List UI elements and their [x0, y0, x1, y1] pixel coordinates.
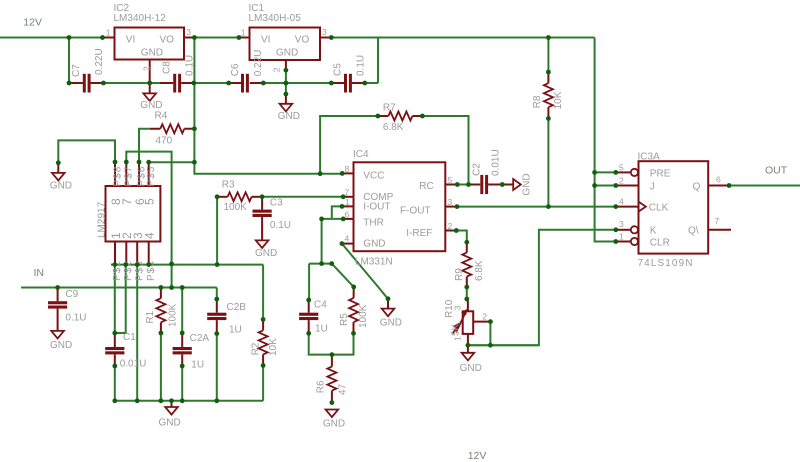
- svg-text:2: 2: [272, 67, 282, 72]
- ground below IC4 pin 4: [380, 299, 402, 329]
- wire 5V rail: [331, 37, 594, 39]
- svg-text:12V: 12V: [23, 16, 42, 28]
- svg-text:C8: C8: [162, 61, 173, 74]
- svg-text:R3: R3: [222, 179, 235, 190]
- svg-text:GND: GND: [159, 417, 181, 428]
- wire R8 bottom to F-OUT net: [547, 118, 549, 206]
- svg-text:P$8: P$8: [112, 166, 123, 187]
- svg-text:LM340H-05: LM340H-05: [249, 13, 302, 24]
- svg-text:GND: GND: [460, 363, 482, 374]
- svg-text:1: 1: [241, 27, 246, 37]
- resistor R6 47: [315, 355, 348, 403]
- svg-text:R8: R8: [532, 95, 543, 108]
- svg-text:3: 3: [322, 27, 327, 37]
- op-amp IC1 LM340H-05 regulator: [239, 3, 331, 72]
- resistor R3 100K: [217, 179, 262, 212]
- svg-text:GND: GND: [50, 340, 72, 351]
- svg-text:R4: R4: [155, 111, 168, 122]
- wire net-A to IN link: [171, 264, 173, 288]
- capacitor C5: [331, 55, 366, 93]
- wire C2B top drop: [216, 288, 218, 300]
- capacitor C3: [253, 197, 292, 241]
- wire K net: [468, 230, 616, 345]
- svg-text:F-OUT: F-OUT: [400, 205, 431, 216]
- svg-text:C1: C1: [123, 332, 136, 343]
- svg-text:1U: 1U: [191, 360, 204, 371]
- svg-text:470: 470: [156, 136, 173, 147]
- svg-text:I-REF: I-REF: [406, 228, 432, 239]
- wire bottom ground bus: [115, 400, 263, 402]
- svg-text:C9: C9: [65, 289, 78, 300]
- ground below R10: [460, 345, 482, 374]
- svg-text:3: 3: [448, 197, 453, 207]
- svg-text:C6: C6: [230, 63, 241, 76]
- svg-text:7: 7: [715, 216, 720, 226]
- svg-text:J: J: [650, 181, 655, 192]
- svg-text:Q: Q: [693, 181, 701, 192]
- svg-text:IC3A: IC3A: [638, 152, 661, 163]
- svg-text:0.22U: 0.22U: [94, 48, 105, 75]
- wire R10 wiper net: [468, 322, 539, 346]
- svg-text:C3: C3: [270, 197, 283, 208]
- svg-text:2: 2: [141, 66, 151, 71]
- wire C4 R5 bottom tie: [309, 333, 354, 354]
- svg-text:6.8K: 6.8K: [474, 260, 485, 281]
- capacitor C8: [160, 55, 196, 93]
- svg-text:0.22U: 0.22U: [253, 50, 264, 77]
- resistor R10 5K trimmer: [444, 299, 491, 345]
- svg-text:C2: C2: [471, 163, 482, 176]
- svg-text:0.01U: 0.01U: [120, 358, 147, 369]
- svg-text:VCC: VCC: [363, 170, 384, 181]
- wire R7 left leg: [320, 116, 378, 174]
- svg-text:5: 5: [619, 163, 624, 173]
- svg-text:6: 6: [716, 175, 721, 185]
- resistor R4 470: [150, 111, 195, 147]
- svg-text:1: 1: [345, 197, 350, 207]
- wire C7 top drop: [68, 38, 70, 84]
- svg-text:1U: 1U: [229, 325, 242, 336]
- ground below IC2 pin 2: [140, 93, 162, 111]
- resistor R8 10K: [532, 72, 564, 118]
- svg-text:GND: GND: [323, 419, 345, 430]
- wire RC pin to C2: [457, 184, 468, 186]
- wire 12V regulated segment: [194, 37, 239, 39]
- svg-text:2: 2: [619, 176, 624, 186]
- wire IC4 gnd diagonal: [342, 244, 388, 299]
- svg-text:LM331N: LM331N: [355, 256, 393, 267]
- svg-text:74LS109N: 74LS109N: [638, 258, 694, 269]
- svg-text:R5: R5: [339, 313, 350, 326]
- capacitor C1: [105, 332, 146, 369]
- svg-text:C4: C4: [314, 299, 327, 310]
- svg-text:GND: GND: [50, 180, 72, 191]
- svg-text:IC1: IC1: [249, 3, 265, 14]
- wire diagonal to R5: [332, 264, 354, 287]
- svg-text:I-OUT: I-OUT: [363, 201, 390, 212]
- wire R4 left to pin P$6: [139, 129, 150, 162]
- svg-text:0.1U: 0.1U: [270, 220, 291, 231]
- op-amp IC2 LM340H-12 regulator: [103, 3, 195, 93]
- svg-text:CLR: CLR: [650, 237, 670, 248]
- ground right of C2: [502, 173, 532, 195]
- svg-text:5: 5: [448, 175, 453, 185]
- svg-text:LM340H-12: LM340H-12: [114, 13, 167, 24]
- resistor R1 100K: [145, 288, 179, 334]
- svg-text:GND: GND: [141, 48, 163, 59]
- wire R2 bottom: [262, 365, 264, 400]
- svg-text:VI: VI: [126, 34, 135, 45]
- svg-text:0.1U: 0.1U: [185, 55, 196, 76]
- svg-text:RC: RC: [419, 181, 433, 192]
- svg-text:3: 3: [186, 27, 191, 37]
- resistor R2 10K: [251, 319, 280, 365]
- capacitor C2A: [173, 333, 210, 371]
- svg-text:IC2: IC2: [114, 3, 130, 14]
- wire C4 top drop: [308, 264, 310, 300]
- svg-text:10K: 10K: [268, 338, 279, 356]
- svg-text:1: 1: [619, 232, 624, 242]
- wire R1 bottom: [160, 333, 162, 401]
- wire ground bus under regulators: [69, 38, 378, 84]
- wire IC1 gnd pin drop: [285, 70, 287, 94]
- capacitor C2B: [207, 299, 246, 336]
- svg-text:0.1U: 0.1U: [65, 312, 86, 323]
- svg-text:3: 3: [619, 219, 624, 229]
- wire I-OUT to THR: [322, 206, 344, 219]
- svg-text:R6: R6: [315, 380, 326, 393]
- capacitor C9: [48, 288, 87, 331]
- svg-text:47: 47: [337, 383, 348, 395]
- svg-text:C2B: C2B: [227, 302, 247, 313]
- node OUT label: [765, 165, 788, 177]
- ground below R6: [323, 410, 345, 430]
- svg-text:VO: VO: [160, 34, 175, 45]
- svg-text:PRE: PRE: [650, 168, 671, 179]
- op-amp LM2917 tachometer IC: [97, 162, 161, 281]
- wire C1 bottom: [114, 366, 116, 401]
- svg-text:OUT: OUT: [765, 165, 788, 177]
- svg-text:0.1U: 0.1U: [356, 55, 367, 76]
- capacitor C2: [469, 149, 503, 194]
- svg-text:0.01U: 0.01U: [491, 149, 502, 176]
- svg-text:100K: 100K: [168, 303, 179, 327]
- svg-text:THR: THR: [363, 218, 384, 229]
- svg-text:IN: IN: [34, 267, 45, 279]
- wire P$7 loop to bottom net: [126, 152, 171, 264]
- wire R3 left drop: [216, 197, 218, 265]
- svg-text:R1: R1: [145, 310, 156, 323]
- transistor IC3A 74LS109N flip-flop: [616, 152, 731, 269]
- node junction dots: [55, 35, 731, 405]
- wire 12V to IC3A PRE J CLR: [595, 38, 616, 242]
- svg-text:CLK: CLK: [649, 203, 669, 214]
- op-amp IC4 LM331N: [342, 149, 457, 267]
- wire P$1 drop to C1: [114, 265, 116, 333]
- ground left of LM2917: [50, 163, 72, 192]
- capacitor C6: [229, 50, 264, 93]
- wire COMP net: [262, 196, 343, 198]
- svg-text:LM2917: LM2917: [97, 201, 108, 238]
- ground below C9: [50, 331, 72, 351]
- svg-text:GND: GND: [380, 318, 402, 329]
- wire P$8 to GND hook: [58, 140, 115, 162]
- svg-text:2: 2: [448, 221, 453, 231]
- svg-text:VI: VI: [261, 34, 270, 45]
- svg-text:P$7: P$7: [124, 166, 135, 187]
- svg-text:3: 3: [453, 305, 463, 310]
- svg-text:8: 8: [345, 164, 350, 174]
- svg-text:100K: 100K: [358, 304, 369, 328]
- svg-text:GND: GND: [276, 48, 298, 59]
- svg-text:4: 4: [143, 232, 157, 239]
- wire R7 right to RC: [422, 116, 468, 185]
- capacitor C4: [299, 299, 328, 334]
- svg-text:GND: GND: [255, 248, 277, 259]
- svg-text:C2A: C2A: [190, 333, 210, 344]
- svg-text:R9: R9: [454, 268, 465, 281]
- svg-text:1: 1: [106, 27, 111, 37]
- wire C2B bottom: [216, 334, 218, 401]
- ground below IC1 pin 2: [278, 94, 300, 122]
- svg-text:12V: 12V: [468, 450, 487, 462]
- svg-text:R7: R7: [383, 102, 396, 113]
- wire P$3 drop to ground bus: [136, 265, 138, 401]
- node 12V supply label: [23, 16, 42, 28]
- svg-text:Q\: Q\: [688, 226, 699, 237]
- svg-text:100K: 100K: [224, 202, 248, 213]
- svg-text:2: 2: [482, 312, 487, 322]
- svg-text:VO: VO: [295, 34, 310, 45]
- wire 12V input rail: [0, 37, 103, 39]
- wire F-OUT net: [457, 206, 616, 208]
- svg-text:1: 1: [453, 336, 463, 341]
- wire THR drop: [321, 219, 323, 264]
- wire R8 top: [547, 38, 549, 73]
- svg-text:C7: C7: [71, 64, 82, 77]
- ground below C3: [255, 240, 277, 259]
- resistor R7 6.8K: [378, 102, 423, 132]
- wire R9 bottom to R10: [466, 287, 468, 299]
- svg-text:5: 5: [143, 198, 157, 205]
- wire 12V regulated vertical: [194, 38, 342, 174]
- svg-text:IC4: IC4: [353, 149, 369, 160]
- svg-text:6.8K: 6.8K: [383, 122, 404, 133]
- wire C2A legs: [181, 288, 183, 401]
- svg-text:4: 4: [619, 197, 624, 207]
- ground below bottom bus: [159, 401, 181, 429]
- svg-text:GND: GND: [521, 173, 532, 195]
- node IN label: [34, 267, 45, 279]
- svg-text:K: K: [650, 226, 657, 237]
- svg-text:GND: GND: [363, 239, 385, 250]
- svg-text:5K: 5K: [450, 323, 461, 336]
- resistor R9 6.8K: [454, 242, 485, 287]
- svg-text:R2: R2: [251, 342, 262, 355]
- svg-text:1U: 1U: [315, 324, 328, 335]
- wire R2 top drop: [262, 265, 264, 320]
- svg-text:C5: C5: [333, 63, 344, 76]
- svg-text:GND: GND: [140, 100, 162, 111]
- svg-text:4: 4: [345, 233, 350, 243]
- svg-text:GND: GND: [278, 111, 300, 122]
- wire OUT net: [729, 185, 800, 187]
- wire LM2917 bottom net: [111, 264, 263, 266]
- resistor R5 100K: [339, 287, 369, 333]
- svg-text:P$5: P$5: [146, 166, 157, 187]
- capacitor C7: [70, 48, 106, 92]
- svg-text:10K: 10K: [553, 91, 564, 109]
- wire P$5 to 12V vertical: [149, 161, 195, 163]
- node 12V bottom label: [468, 450, 487, 462]
- wire P$2 elbow to C1: [115, 265, 126, 333]
- wire IN net: [21, 287, 217, 289]
- wire THR bottom segment: [309, 263, 332, 265]
- wire I-REF to R9: [456, 231, 467, 243]
